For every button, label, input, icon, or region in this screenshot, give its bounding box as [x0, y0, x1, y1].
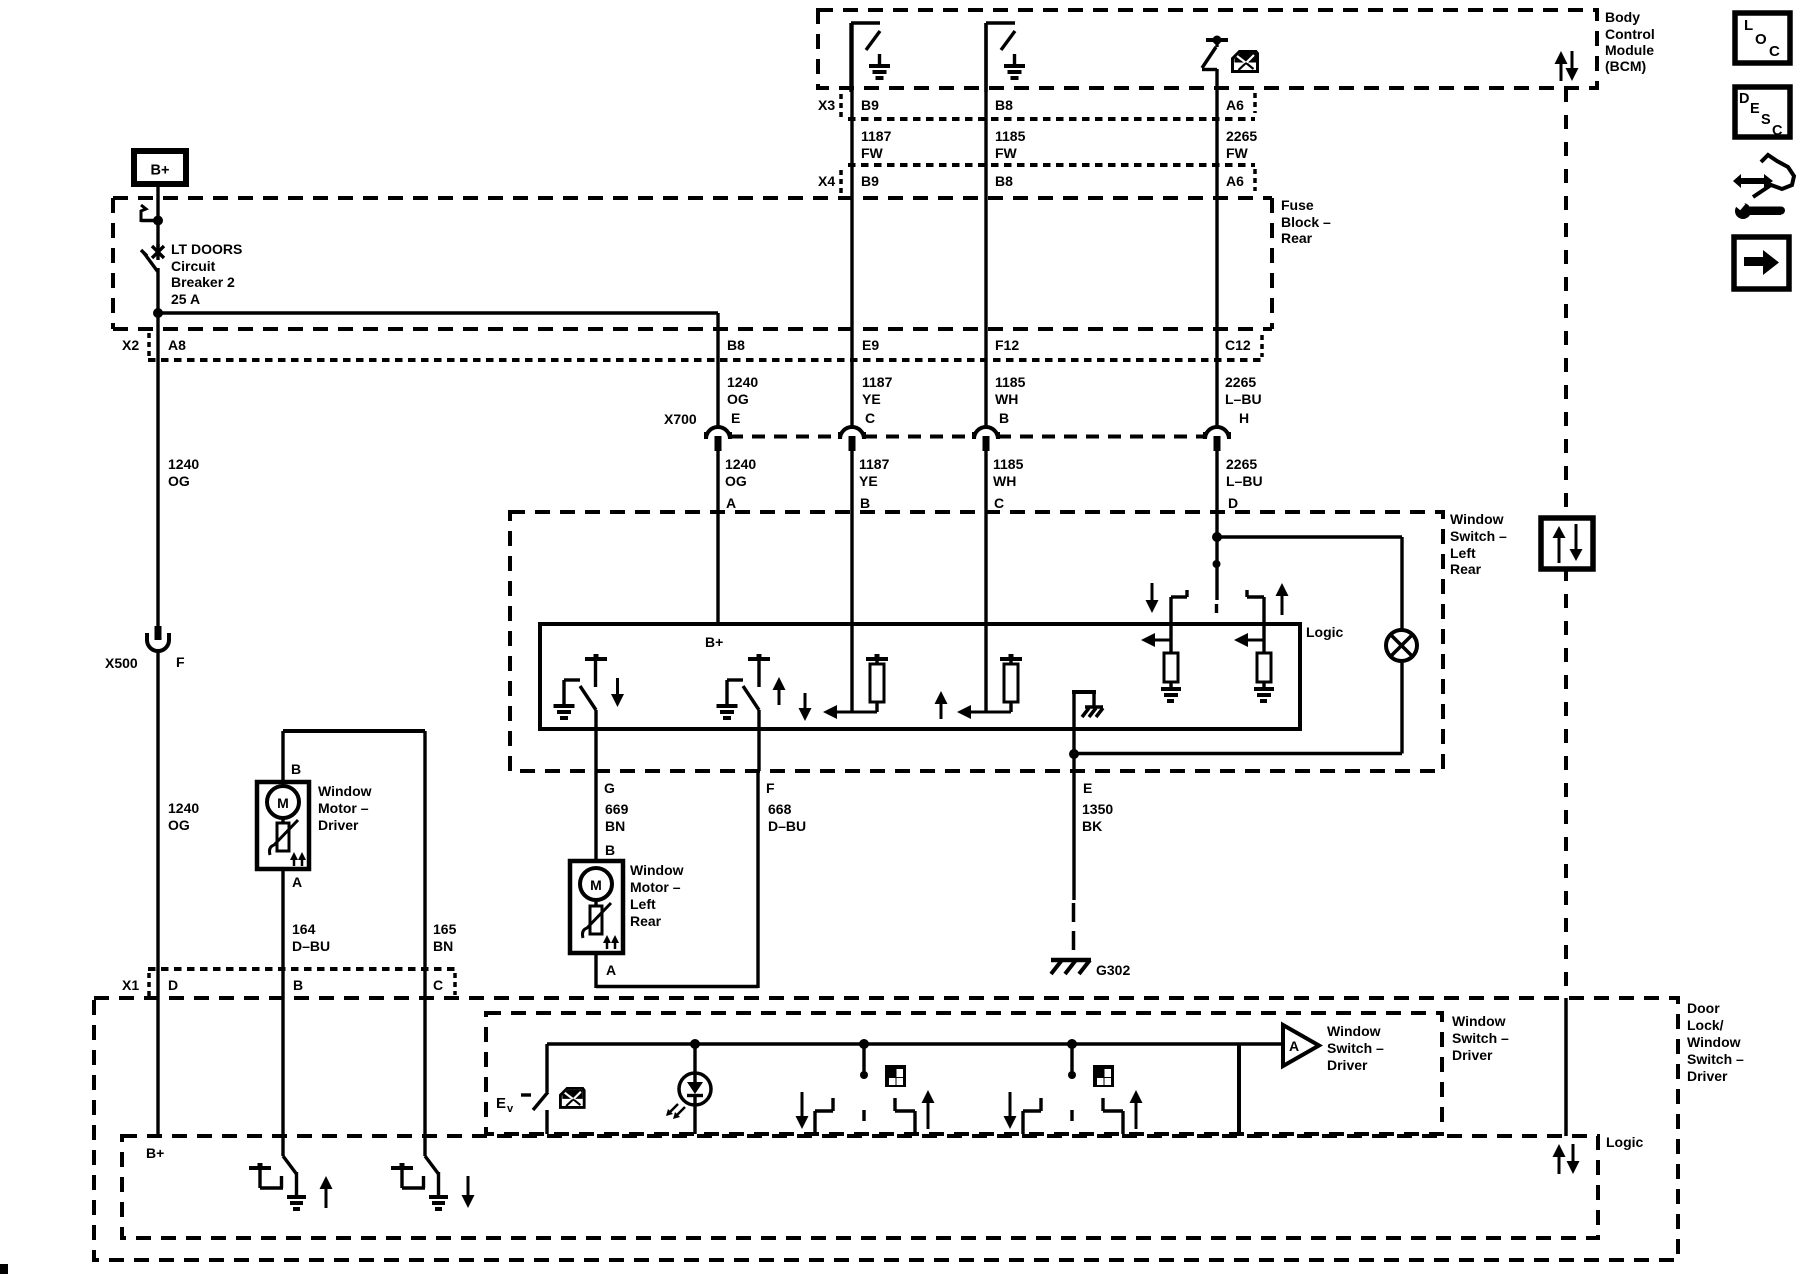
driver window switch SW1: down contact — [815, 1098, 833, 1134]
svg-text:Module: Module — [1605, 42, 1654, 58]
legend LOC box — [1735, 13, 1790, 63]
svg-text:YE: YE — [862, 391, 881, 407]
svg-text:OG: OG — [168, 473, 190, 489]
thermal protector driver — [270, 818, 299, 855]
wire G from switch to motor — [594, 710, 597, 771]
svg-text:E: E — [1083, 780, 1092, 796]
svg-text:Lock/: Lock/ — [1687, 1017, 1724, 1033]
bottom logic up/down arrows — [1553, 1144, 1580, 1174]
driver window switch SW2: down arrow — [1009, 1092, 1012, 1118]
svg-text:Logic: Logic — [1306, 624, 1344, 640]
driver window switch SW2: pole — [1067, 1039, 1077, 1121]
driver window switch SW1: pole — [859, 1039, 869, 1121]
driver window switch SW2: up arrow — [1135, 1101, 1138, 1129]
wire F from switch down — [757, 710, 760, 771]
svg-text:YE: YE — [859, 473, 878, 489]
Window Switch - Left Rear dashed box — [510, 512, 1443, 771]
svg-text:Circuit: Circuit — [171, 258, 216, 274]
serial data dashed line BCM to switch — [1564, 88, 1568, 518]
wire motor A to F loop — [596, 771, 758, 988]
page edge artifact — [0, 1264, 8, 1274]
svg-text:1240: 1240 — [168, 800, 199, 816]
window lock icon SW1 — [885, 1065, 906, 1087]
switch D: pole — [1213, 537, 1221, 613]
svg-text:S: S — [1761, 112, 1771, 128]
connector X3 row — [818, 93, 1255, 119]
svg-text:Rear: Rear — [630, 913, 662, 929]
svg-text:2265: 2265 — [1226, 456, 1257, 472]
driver window switch SW1: up contact — [895, 1098, 915, 1134]
Window Motor - Driver box — [257, 782, 309, 869]
svg-text:FW: FW — [861, 145, 884, 161]
svg-text:Door: Door — [1687, 1000, 1720, 1016]
svg-text:F12: F12 — [995, 337, 1019, 353]
Body Control Module (BCM) dashed box — [818, 10, 1597, 88]
svg-text:M: M — [590, 877, 602, 893]
svg-text:A: A — [1289, 1038, 1299, 1054]
motor M driver — [267, 786, 299, 818]
svg-text:A6: A6 — [1226, 97, 1244, 113]
svg-text:B: B — [605, 842, 615, 858]
svg-text:FW: FW — [1226, 145, 1249, 161]
svg-text:F: F — [176, 654, 185, 670]
switch G: pole from B+ — [585, 654, 607, 687]
svg-text:C: C — [865, 410, 875, 426]
svg-text:A: A — [292, 874, 302, 890]
bus drop to logic — [1237, 1044, 1241, 1134]
svg-text:X4: X4 — [818, 173, 835, 189]
driver output switch C — [425, 999, 448, 1209]
svg-text:Window: Window — [1452, 1013, 1506, 1029]
svg-text:Motor –: Motor – — [630, 879, 681, 895]
svg-text:H: H — [1239, 410, 1249, 426]
svg-text:C: C — [1769, 43, 1780, 60]
svg-text:Driver: Driver — [1452, 1047, 1493, 1063]
legend right-arrow box — [1734, 237, 1789, 289]
svg-text:1185: 1185 — [995, 374, 1026, 390]
wire breaker down to X2 A8 — [156, 313, 159, 360]
svg-text:D–BU: D–BU — [292, 938, 330, 954]
svg-text:Window: Window — [1327, 1023, 1381, 1039]
svg-text:Logic: Logic — [1606, 1134, 1644, 1150]
Window Switch - Driver dashed box — [486, 1013, 1442, 1134]
up/down arrow box — [1541, 518, 1593, 569]
wire B+ to circuit breaker — [156, 183, 159, 247]
window lock icon SW2 — [1093, 1065, 1114, 1087]
svg-text:E: E — [1750, 101, 1760, 117]
svg-text:668: 668 — [768, 801, 792, 817]
connector X2 row — [122, 333, 1262, 360]
svg-text:Window: Window — [630, 862, 684, 878]
svg-text:B8: B8 — [995, 173, 1013, 189]
svg-text:Window: Window — [1450, 511, 1504, 527]
svg-text:X2: X2 — [122, 337, 139, 353]
driver window switch SW2: down contact — [1023, 1098, 1041, 1134]
LED indicator — [666, 1039, 711, 1134]
svg-text:L: L — [1744, 17, 1753, 34]
X700 cavity C — [840, 410, 875, 451]
switch D: down contact with resistor to ground — [1141, 583, 1187, 701]
svg-text:1350: 1350 — [1082, 801, 1113, 817]
svg-text:C: C — [1772, 123, 1783, 139]
svg-text:G: G — [604, 780, 615, 796]
serial data dashed line switch to driver — [1564, 567, 1568, 998]
connector X500 — [105, 626, 185, 671]
junction E and lamp return — [1069, 749, 1079, 759]
ground G302 — [1051, 960, 1091, 974]
svg-text:Switch –: Switch – — [1450, 528, 1507, 544]
svg-text:B+: B+ — [151, 163, 170, 179]
junction breaker output — [153, 308, 163, 318]
svg-text:1187: 1187 — [862, 374, 893, 390]
svg-text:L–BU: L–BU — [1226, 473, 1263, 489]
thermal protector left rear — [583, 900, 612, 938]
svg-text:25 A: 25 A — [171, 291, 200, 307]
wire E down to G302 — [1072, 771, 1076, 958]
svg-text:G302: G302 — [1096, 962, 1130, 978]
svg-text:Switch –: Switch – — [1452, 1030, 1509, 1046]
motor M left rear — [580, 868, 612, 900]
svg-text:164: 164 — [292, 921, 316, 937]
svg-text:B: B — [291, 761, 301, 777]
BCM internal switch to ground S1 (pin B9) — [851, 23, 890, 92]
svg-text:BN: BN — [433, 938, 453, 954]
wiper C: arrow and resistor R2 — [935, 654, 1023, 719]
svg-text:Left: Left — [1450, 545, 1476, 561]
svg-text:OG: OG — [168, 817, 190, 833]
svg-text:X700: X700 — [664, 411, 697, 427]
switch G down arrow — [616, 678, 619, 696]
driver amp triangle A — [1283, 1025, 1319, 1066]
svg-text:Window: Window — [1687, 1034, 1741, 1050]
legend swap-arrows and wrench icon — [1733, 155, 1794, 219]
svg-text:Switch –: Switch – — [1687, 1051, 1744, 1067]
svg-text:C: C — [433, 977, 443, 993]
connector X1 row — [122, 969, 455, 997]
switch F: pole from B+ — [748, 654, 770, 687]
svg-text:OG: OG — [727, 391, 749, 407]
internal chassis ground on wire E — [1072, 690, 1103, 754]
svg-text:Body: Body — [1605, 9, 1640, 25]
svg-text:B+: B+ — [705, 634, 723, 650]
switch F up arrow — [778, 688, 781, 705]
svg-text:BK: BK — [1082, 818, 1102, 834]
switch D: up contact with resistor to ground — [1234, 583, 1289, 701]
wire breaker to B8 column — [158, 311, 718, 315]
svg-text:(BCM): (BCM) — [1605, 58, 1646, 74]
svg-text:A6: A6 — [1226, 173, 1244, 189]
switch F: blade and contact to ground — [717, 680, 760, 718]
svg-text:C12: C12 — [1225, 337, 1251, 353]
svg-text:669: 669 — [605, 801, 629, 817]
svg-text:B8: B8 — [995, 97, 1013, 113]
svg-text:Driver: Driver — [1687, 1068, 1728, 1084]
BCM internal switch to ground S2 (pin B8) — [986, 23, 1025, 92]
Fuse Block - Rear dashed box — [113, 198, 1272, 329]
svg-text:1187: 1187 — [859, 456, 890, 472]
svg-text:O: O — [1755, 31, 1767, 48]
svg-text:C: C — [994, 495, 1004, 511]
BCM internal window switch (pin A6) — [1202, 36, 1228, 93]
driver output switch C: down arrow — [467, 1176, 470, 1197]
wire X500 down to X1 D — [156, 650, 159, 999]
BCM up/down arrows — [1555, 51, 1579, 81]
svg-text:X1: X1 — [122, 977, 139, 993]
svg-text:D–BU: D–BU — [768, 818, 806, 834]
driver output switch B: up arrow — [325, 1187, 328, 1208]
wiper B: arrow and resistor R1 — [799, 654, 889, 721]
X700 cavity B — [974, 410, 1009, 451]
wire motor driver B loop — [283, 731, 425, 999]
svg-text:A: A — [726, 495, 736, 511]
switch G: blade and contact to ground — [554, 680, 597, 718]
thermal arrows driver — [290, 852, 306, 866]
wires down to X700 — [718, 23, 1217, 426]
express-down switch Ev — [496, 1044, 548, 1134]
svg-text:Switch –: Switch – — [1327, 1040, 1384, 1056]
svg-text:F: F — [766, 780, 775, 796]
connector X4 row — [818, 165, 1255, 194]
svg-text:Driver: Driver — [1327, 1057, 1368, 1073]
svg-text:B+: B+ — [146, 1145, 164, 1161]
driver output switch C: contact — [391, 1163, 425, 1188]
svg-text:2265: 2265 — [1226, 128, 1257, 144]
svg-text:OG: OG — [725, 473, 747, 489]
switch D: feed to lamp — [1217, 537, 1402, 629]
svg-text:Driver: Driver — [318, 817, 359, 833]
svg-text:A: A — [606, 962, 616, 978]
svg-text:v: v — [507, 1103, 514, 1115]
svg-text:1185: 1185 — [995, 128, 1026, 144]
svg-text:Block –: Block – — [1281, 214, 1331, 230]
wire G to motor left rear — [594, 771, 597, 862]
X700 cavity H — [1205, 410, 1249, 451]
logic box (switch internals) — [540, 624, 1300, 729]
driver output switch B — [283, 999, 306, 1209]
svg-text:A8: A8 — [168, 337, 186, 353]
svg-text:E9: E9 — [862, 337, 879, 353]
svg-text:1240: 1240 — [168, 456, 199, 472]
wire motor driver A down — [281, 869, 284, 999]
legend DESC box — [1735, 87, 1790, 139]
svg-text:D: D — [1228, 495, 1238, 511]
Window Motor - Left Rear box — [570, 861, 623, 953]
svg-text:B9: B9 — [861, 97, 879, 113]
lamp return wire — [1074, 752, 1402, 755]
svg-text:WH: WH — [995, 391, 1018, 407]
svg-text:165: 165 — [433, 921, 457, 937]
wire E down out of box — [1072, 754, 1075, 771]
X700 cavity E — [706, 410, 740, 451]
svg-text:2265: 2265 — [1225, 374, 1256, 390]
svg-text:WH: WH — [993, 473, 1016, 489]
connector X700 dashed line — [664, 411, 1205, 437]
window icon in BCM — [1233, 52, 1258, 72]
svg-text:M: M — [277, 795, 289, 811]
svg-text:B9: B9 — [861, 173, 879, 189]
svg-text:B: B — [293, 977, 303, 993]
svg-text:X500: X500 — [105, 655, 138, 671]
svg-text:X3: X3 — [818, 97, 835, 113]
svg-text:BN: BN — [605, 818, 625, 834]
circuit breaker CB2 — [141, 244, 164, 313]
wire X2 A8 down to X500 — [156, 360, 159, 626]
switch D: junction on wire — [1212, 532, 1222, 542]
svg-text:B: B — [860, 495, 870, 511]
svg-text:Control: Control — [1605, 26, 1655, 42]
driver window switch SW2: up contact — [1103, 1098, 1123, 1134]
wire X1 D to B+ feed — [156, 999, 159, 1136]
wire B8 column down to X2 — [716, 313, 719, 360]
svg-text:E: E — [496, 1095, 506, 1112]
svg-text:LT DOORS: LT DOORS — [171, 241, 242, 257]
svg-text:E: E — [731, 410, 740, 426]
svg-text:1240: 1240 — [725, 456, 756, 472]
driver output switch B: contact — [249, 1163, 283, 1188]
B+ battery feed box — [134, 151, 186, 184]
thermal arrows left rear — [603, 935, 619, 949]
svg-text:B8: B8 — [727, 337, 745, 353]
svg-text:1187: 1187 — [861, 128, 892, 144]
indicator lamp — [1386, 630, 1417, 754]
driver window switch SW1: down arrow — [801, 1092, 804, 1118]
driver logic dashed box — [122, 1136, 1598, 1238]
fuse block terminal hook — [141, 205, 163, 226]
svg-text:Rear: Rear — [1281, 230, 1313, 246]
svg-text:D: D — [168, 977, 178, 993]
driver window switch SW1: up arrow — [927, 1101, 930, 1129]
svg-text:B: B — [999, 410, 1009, 426]
svg-text:Left: Left — [630, 896, 656, 912]
driver switch supply bus — [547, 1042, 1283, 1046]
svg-text:1185: 1185 — [993, 456, 1024, 472]
svg-text:Fuse: Fuse — [1281, 197, 1314, 213]
window icon driver switch — [560, 1088, 584, 1107]
wires X700 to window switch box — [718, 450, 1217, 712]
svg-text:Breaker 2: Breaker 2 — [171, 274, 235, 290]
svg-text:FW: FW — [995, 145, 1018, 161]
svg-text:Window: Window — [318, 783, 372, 799]
svg-text:D: D — [1739, 91, 1749, 107]
Door Lock Window Switch Driver outer dashed box — [94, 998, 1678, 1260]
svg-text:L–BU: L–BU — [1225, 391, 1262, 407]
serial data wire into driver logic — [1564, 998, 1568, 1136]
svg-text:1240: 1240 — [727, 374, 758, 390]
svg-text:Motor –: Motor – — [318, 800, 369, 816]
svg-text:Rear: Rear — [1450, 561, 1482, 577]
